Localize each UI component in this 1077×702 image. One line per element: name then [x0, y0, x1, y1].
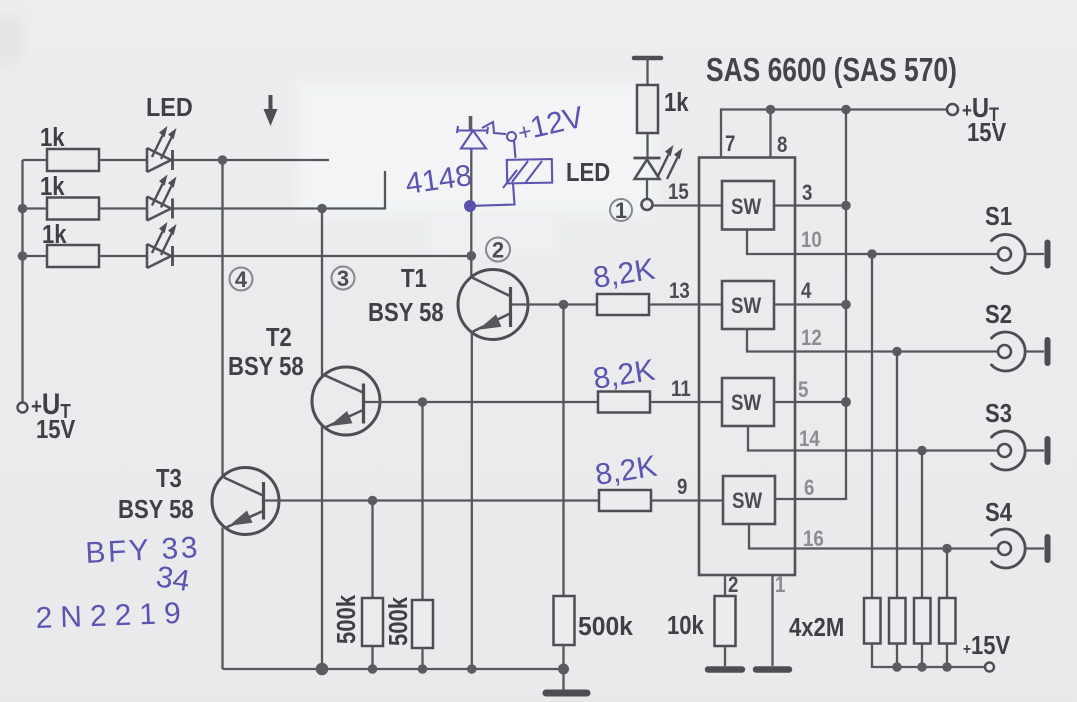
- SW1 box: [722, 181, 774, 230]
- left +UT supply rail: [21, 160, 23, 403]
- node 4 column: [221, 160, 223, 476]
- svg-text:SW: SW: [732, 490, 763, 514]
- transistor T3: [212, 468, 279, 535]
- svg-text:5: 5: [798, 379, 808, 403]
- pin 12 lead: [747, 329, 998, 352]
- pin 7 lead: [769, 110, 771, 158]
- pin 3 lead: [774, 204, 846, 206]
- svg-text:LED: LED: [566, 158, 610, 187]
- pin 10 lead: [747, 230, 998, 255]
- resistor R2 1k: [40, 172, 99, 219]
- pin 15 wire: [653, 204, 723, 206]
- T2 emitter wire: [321, 425, 323, 669]
- svg-text:S2: S2: [985, 300, 1012, 329]
- column B wire: [871, 254, 873, 598]
- pin 14 lead: [748, 426, 998, 451]
- pin 15 terminal: [642, 199, 653, 210]
- resistor R3 1k: [42, 220, 99, 267]
- top supply bus: [721, 110, 948, 158]
- +15V terminal: [985, 663, 994, 672]
- svg-text:2N2219: 2N2219: [35, 597, 189, 635]
- transistor T2: [312, 367, 380, 435]
- touch contact S2: [985, 300, 1048, 371]
- node 3 column: [321, 209, 323, 378]
- svg-text:14: 14: [799, 428, 820, 452]
- svg-text:13: 13: [669, 280, 690, 304]
- svg-text:SAS 6600 (SAS 570): SAS 6600 (SAS 570): [706, 52, 957, 88]
- svg-text:S4: S4: [985, 498, 1013, 527]
- svg-text:SW: SW: [731, 392, 762, 416]
- svg-text:500k: 500k: [384, 596, 413, 646]
- svg-text:3: 3: [802, 182, 812, 206]
- svg-text:BSY 58: BSY 58: [228, 352, 304, 381]
- pin 16 lead: [749, 524, 998, 549]
- svg-text:2: 2: [492, 238, 504, 263]
- T3 emitter wire: [221, 528, 223, 670]
- svg-text:1k: 1k: [664, 88, 689, 117]
- IC outline SAS6600: [699, 158, 795, 576]
- pin 5 lead: [774, 401, 846, 403]
- column D wire: [921, 451, 923, 599]
- svg-text:7: 7: [725, 133, 735, 157]
- SW2 box: [722, 281, 774, 329]
- 500k resistor B (T2): [384, 402, 433, 669]
- 2M resistor 2: [889, 598, 906, 644]
- svg-text:BSY 58: BSY 58: [368, 298, 444, 327]
- svg-text:T1: T1: [401, 264, 427, 293]
- svg-text:1: 1: [775, 574, 785, 598]
- svg-text:BSY 58: BSY 58: [118, 495, 194, 524]
- handwritten LED box: [474, 159, 552, 206]
- node circle 2: [486, 238, 510, 263]
- LED D4 (vertical): [634, 145, 683, 199]
- 2M resistor 3: [914, 598, 931, 644]
- LED D3: [147, 222, 177, 268]
- ground pin1: [756, 666, 789, 673]
- down arrow top center: [264, 95, 278, 126]
- svg-text:4: 4: [235, 267, 248, 292]
- purple junction dot: [464, 200, 476, 212]
- correction-fluid white patch: [298, 82, 654, 215]
- 2M resistor 1: [864, 598, 881, 644]
- svg-text:1k: 1k: [40, 172, 65, 201]
- svg-text:500k: 500k: [332, 594, 361, 644]
- bottom right bus to +15V: [872, 644, 985, 668]
- svg-text:1: 1: [615, 198, 627, 223]
- svg-text:4: 4: [801, 280, 812, 304]
- pin 2 lead: [724, 575, 726, 596]
- wire row2: [23, 207, 48, 209]
- 500k resistor A (T3): [332, 501, 383, 670]
- svg-text:10: 10: [801, 229, 822, 253]
- svg-text:15V: 15V: [967, 118, 1006, 147]
- svg-text:10k: 10k: [667, 611, 704, 640]
- svg-text:4x2M: 4x2M: [789, 613, 844, 642]
- ground pin2: [708, 666, 742, 673]
- ground (main): [546, 690, 587, 697]
- handwritten diode 4148: [457, 126, 488, 153]
- junction dots left area: [218, 155, 228, 165]
- node 2 column: [470, 148, 472, 277]
- column C wire: [896, 352, 898, 599]
- T1 base wire: [512, 303, 598, 305]
- +UT 15V label top right: [962, 91, 1006, 147]
- transistor T1: [458, 270, 528, 340]
- pin 1 lead: [771, 575, 773, 666]
- touch contact S4: [985, 498, 1048, 568]
- terminal +UT left: [18, 403, 28, 413]
- svg-text:11: 11: [671, 378, 691, 402]
- label +UT 15V left: [31, 387, 75, 444]
- touch contact S3: [985, 399, 1048, 470]
- wire row3: [23, 255, 48, 257]
- T3 base wire: [264, 499, 599, 501]
- resistor R1 1k: [40, 123, 99, 171]
- resistor 8.2K #1: [597, 294, 722, 315]
- svg-text:2: 2: [728, 574, 738, 598]
- svg-text:15V: 15V: [36, 415, 75, 444]
- pin 6 lead: [775, 402, 846, 499]
- SW3 box: [722, 378, 774, 426]
- resistor 8.2K #3: [599, 490, 723, 511]
- 500k resistor C (T1): [554, 305, 634, 691]
- svg-text:500k: 500k: [578, 612, 634, 641]
- svg-text:1k: 1k: [40, 123, 65, 152]
- svg-text:S3: S3: [985, 399, 1012, 428]
- svg-text:T2: T2: [266, 323, 292, 352]
- resistor 8.2K #2: [598, 392, 722, 413]
- T2 base wire: [364, 401, 598, 403]
- svg-text:6: 6: [804, 477, 814, 501]
- svg-text:1k: 1k: [42, 220, 67, 249]
- svg-text:12: 12: [801, 327, 822, 351]
- +UT terminal top right: [947, 104, 958, 115]
- svg-text:SW: SW: [731, 196, 762, 220]
- 10k resistor: [667, 596, 736, 666]
- svg-text:15: 15: [668, 181, 689, 205]
- node circle 1: [610, 198, 632, 223]
- node circle 4: [230, 267, 253, 292]
- touch contact S1: [985, 202, 1048, 273]
- svg-text:34: 34: [154, 560, 192, 598]
- SW4 box: [723, 476, 775, 524]
- svg-text:SW: SW: [731, 295, 762, 319]
- pin 4 lead: [774, 303, 846, 305]
- T1 emitter wire: [471, 333, 473, 670]
- wire row1: [23, 159, 48, 161]
- svg-text:8: 8: [777, 134, 787, 158]
- handwritten +12V wire and terminal: [482, 122, 516, 158]
- bus column A (pins 3,4,5,6 to +UT): [845, 110, 847, 403]
- svg-text:S1: S1: [985, 202, 1012, 231]
- svg-text:3: 3: [337, 266, 349, 291]
- column E wire: [946, 549, 948, 599]
- 2M resistor 4: [939, 598, 956, 644]
- 1k resistor (top, LED chain): [634, 58, 689, 157]
- bottom emitter bus: [223, 668, 565, 670]
- svg-text:LED: LED: [146, 94, 193, 122]
- LED D1: [147, 126, 177, 172]
- svg-text:T3: T3: [156, 464, 182, 493]
- LED D2: [147, 175, 177, 221]
- svg-text:16: 16: [803, 528, 824, 552]
- node circle 3: [332, 266, 355, 291]
- svg-text:9: 9: [677, 476, 687, 500]
- printed stub above purple diode: [469, 116, 473, 130]
